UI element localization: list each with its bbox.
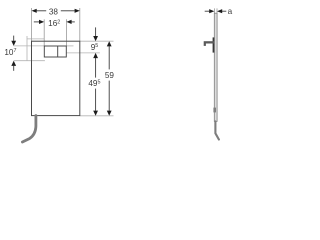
- svg-text:495: 495: [88, 79, 100, 88]
- svg-text:a: a: [228, 7, 233, 16]
- svg-text:162: 162: [48, 19, 60, 28]
- svg-text:59: 59: [105, 71, 115, 80]
- svg-text:38: 38: [49, 7, 59, 16]
- svg-text:95: 95: [91, 43, 99, 52]
- svg-text:107: 107: [4, 48, 16, 57]
